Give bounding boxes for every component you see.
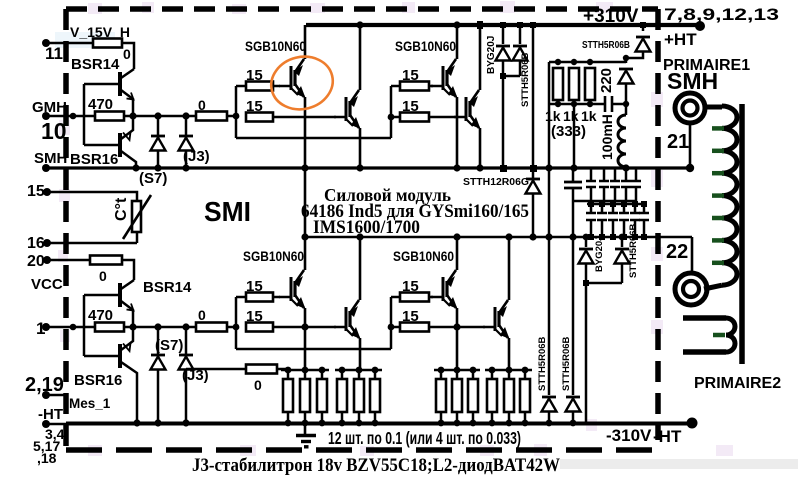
svg-text:0: 0 (254, 377, 262, 393)
terminal 11 (42, 39, 50, 47)
resistor 0 (V_15V_H) (93, 39, 122, 48)
svg-text:-HT: -HT (653, 427, 682, 446)
resistor 15 (Q2b gate) (391, 116, 400, 119)
connector 21 (675, 93, 705, 123)
svg-text:SMI: SMI (204, 196, 251, 227)
terminal 15 / thermistor C°t (43, 188, 51, 196)
svg-text:STTH5R06B: STTH5R06B (561, 336, 572, 391)
gate tie wire top (236, 137, 391, 140)
svg-text:BSR14: BSR14 (143, 279, 192, 296)
capacitor bank row 1 (572, 168, 575, 182)
svg-text:(J3): (J3) (183, 148, 210, 165)
winding taps (green) (712, 128, 724, 262)
rail 1 (gate drive bottom) (42, 323, 50, 331)
join of top diode pair (503, 75, 520, 78)
svg-text:15: 15 (27, 183, 45, 200)
resistor 15 (Q3a gate) (236, 296, 246, 299)
svg-text:15: 15 (402, 98, 419, 115)
svg-text:470: 470 (88, 307, 113, 324)
transistor BSR14 (bottom) (84, 279, 192, 327)
svg-text:SGB10N60: SGB10N60 (243, 248, 304, 264)
gate node column top cluster1 (235, 86, 238, 138)
wire to BSR14 collector (122, 43, 134, 69)
svg-text:0: 0 (123, 46, 131, 62)
resistor 15 (Q1a gate) (236, 85, 246, 88)
svg-text:100mH: 100mH (599, 114, 615, 160)
svg-text:STTH12R06G: STTH12R06G (463, 177, 529, 188)
capacitor bank row 2 (603, 201, 606, 204)
svg-text:1k: 1k (581, 108, 597, 124)
resistor 0 (gate feed top) (196, 112, 227, 121)
bank bottom junction dots (285, 420, 577, 427)
gate node column bottom cluster1 (235, 297, 238, 349)
svg-text:BYG20J: BYG20J (486, 36, 497, 74)
mid rail (lower bridge collectors / node 22) (304, 168, 307, 237)
diode BYG20J (mid pair B1) (585, 237, 588, 247)
IGBT Q3a (279, 270, 306, 309)
svg-text:0: 0 (198, 97, 206, 113)
transformer primary winding (703, 105, 722, 110)
IGBT Q4b (483, 300, 510, 339)
diode (J3) bottom (185, 327, 188, 423)
connector 22 (675, 273, 707, 305)
capacitor 220 (603, 68, 605, 88)
IGBT Q2b (454, 90, 481, 129)
svg-text:STTH5R06B: STTH5R06B (582, 40, 630, 51)
junction dots GMH rail (70, 113, 77, 120)
svg-text:2,19: 2,19 (25, 374, 64, 396)
svg-text:-HT: -HT (38, 406, 63, 423)
resistor 15 (Q4a gate) (391, 296, 400, 299)
transistor BSR16 (bottom) (74, 327, 137, 423)
orange highlight ellipse (266, 50, 339, 115)
ground (296, 423, 316, 447)
svg-text:+HT: +HT (664, 30, 697, 49)
thermistor body (132, 201, 141, 232)
svg-text:21: 21 (667, 131, 689, 153)
svg-text:22: 22 (666, 241, 688, 263)
svg-text:BSR16: BSR16 (74, 372, 122, 389)
svg-text:C°t: C°t (113, 197, 130, 221)
snubber resistors 1k x3 (549, 61, 626, 64)
resistor 470 (top) (95, 112, 124, 121)
svg-text:(S7): (S7) (155, 337, 183, 354)
svg-text:,18: ,18 (37, 450, 57, 466)
svg-text:470: 470 (88, 96, 113, 113)
IGBT Q1b (334, 90, 361, 129)
resistor 0 (gate feed bottom) (196, 323, 227, 332)
base column top driver (83, 84, 86, 145)
resistor 15 (Q3b gate) (246, 323, 273, 332)
resistor bank group2 (335, 369, 382, 372)
svg-text:+310V: +310V (583, 6, 639, 27)
svg-text:0: 0 (198, 307, 206, 323)
resistor 0 (VCC) (90, 256, 122, 265)
resistor 15 (Q4b gate) (391, 326, 400, 329)
svg-text:IMS1600/1700: IMS1600/1700 (313, 217, 420, 238)
gate node column top cluster2 (390, 86, 393, 138)
svg-text:1: 1 (36, 319, 45, 338)
svg-text:10: 10 (41, 118, 67, 144)
join of mid pair (586, 282, 622, 285)
resistor 0 (bank feed) (186, 368, 246, 371)
IGBT Q1a (279, 59, 306, 98)
diode BYG20J (top pair) (502, 25, 505, 44)
diode (S7) top (157, 116, 160, 168)
svg-text:1k: 1k (563, 108, 579, 124)
resistor 15 (Q1b gate) (246, 113, 273, 122)
diode STTH5R06B (bottom pair A2) (572, 201, 575, 395)
IGBT Q4a (431, 270, 458, 309)
IGBT Q3b (334, 300, 361, 339)
svg-text:7,8,9,12,13: 7,8,9,12,13 (664, 5, 779, 24)
svg-text:15: 15 (402, 278, 419, 295)
terminal 2,19 (42, 391, 50, 399)
svg-text:15: 15 (402, 67, 419, 84)
node -HT right (687, 418, 698, 429)
diode (J3) top (185, 116, 188, 168)
svg-text:-310V: -310V (606, 426, 652, 445)
svg-text:20: 20 (27, 253, 45, 270)
svg-text:1k: 1k (545, 108, 561, 124)
resistor bank group3 (434, 369, 480, 372)
secondary winding PRIMAIRE2 (683, 315, 726, 321)
resistor bank group1 (281, 369, 329, 372)
svg-text:J3-стабилитрон 18v BZV55C18;L2: J3-стабилитрон 18v BZV55C18;L2-диодBAT42… (192, 455, 560, 476)
svg-text:STTH5R06B: STTH5R06B (628, 223, 639, 278)
svg-text:15: 15 (246, 98, 263, 115)
wire V_15V_H (46, 42, 93, 45)
svg-text:SGB10N60: SGB10N60 (245, 38, 306, 54)
wire to BSR14 collector (bottom) (122, 260, 134, 280)
svg-text:11: 11 (45, 44, 63, 63)
svg-text:15: 15 (246, 278, 263, 295)
diode STTH5R06B (mid pair B2) (621, 237, 624, 247)
svg-text:(333): (333) (551, 123, 586, 140)
svg-text:15: 15 (402, 308, 419, 325)
node 7,8,9,12,13 (695, 21, 705, 31)
svg-text:BSR14: BSR14 (71, 56, 120, 73)
svg-text:BYG20J: BYG20J (594, 236, 605, 272)
gate tie wire bottom (236, 348, 391, 351)
svg-text:SMH: SMH (34, 150, 67, 167)
diode STTH5R06B (bottom pair A1) (548, 168, 551, 395)
svg-text:BSR16: BSR16 (70, 151, 118, 168)
dashed module border (66, 9, 658, 448)
svg-text:STTH5R06B: STTH5R06B (520, 52, 531, 107)
diode (snubber mid) (625, 58, 628, 63)
+310V bus (306, 23, 700, 27)
resistor bank group4 (485, 369, 532, 372)
diode STTH5R06B (top right) (640, 22, 646, 28)
resistor 15 (Q2a gate) (391, 85, 400, 88)
-HT rail bottom (66, 422, 692, 426)
transistor BSR16 (top) (70, 116, 136, 168)
IGBT Q2a (431, 59, 458, 98)
svg-text:Mes_1: Mes_1 (69, 396, 111, 411)
svg-text:16: 16 (27, 235, 45, 252)
svg-text:GMH: GMH (32, 99, 67, 116)
svg-text:220: 220 (598, 68, 615, 93)
svg-text:STTH5R06B: STTH5R06B (537, 336, 548, 391)
core line (739, 104, 745, 364)
svg-text:15: 15 (246, 67, 263, 84)
terminal 20 (43, 256, 51, 264)
svg-text:SGB10N60: SGB10N60 (395, 38, 456, 54)
svg-text:(S7): (S7) (139, 170, 167, 187)
svg-text:15: 15 (246, 308, 263, 325)
svg-text:VCC: VCC (31, 276, 63, 293)
terminal 16 (43, 239, 51, 247)
GMH rail (42, 112, 50, 120)
svg-text:SGB10N60: SGB10N60 (393, 248, 454, 264)
diode (S7) bottom (157, 327, 160, 423)
diode STTH5R06B (top pair) (519, 25, 522, 44)
pale artifact tiles (58, 1, 733, 456)
SMH rail (42, 164, 50, 172)
transistor BSR14 (top) (71, 56, 134, 116)
inductor 100mH (618, 115, 626, 167)
gate node column bottom cluster2 (390, 297, 393, 349)
svg-text:0: 0 (99, 268, 107, 284)
svg-text:SMH: SMH (667, 68, 718, 94)
svg-text:12 шт. по 0.1 (или 4 шт. по 0.: 12 шт. по 0.1 (или 4 шт. по 0.033) (328, 428, 521, 448)
resistor 470 (bottom) (95, 323, 124, 332)
diode STTH12R06G column (530, 22, 536, 28)
svg-text:PRIMAIRE2: PRIMAIRE2 (694, 375, 781, 392)
